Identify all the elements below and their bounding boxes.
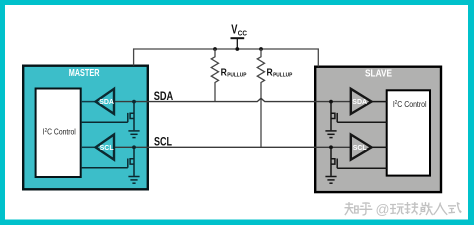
wire slave SCL buffer to control [371, 146, 387, 148]
svg-text:CC: CC [238, 28, 248, 37]
wire SCL bus [114, 146, 351, 148]
wire SDA bus [114, 98, 351, 101]
svg-text:V: V [231, 22, 237, 37]
svg-text:SDA: SDA [99, 99, 114, 106]
transistor slave SDA pulldown Q3 [331, 102, 387, 131]
svg-text:SCL: SCL [154, 135, 172, 149]
svg-text:SDA: SDA [154, 89, 174, 103]
power Vcc symbol [231, 38, 245, 49]
svg-text:SCL: SCL [100, 145, 115, 152]
resistor RPULLUP1 [211, 49, 218, 102]
IC MASTER box [23, 66, 148, 190]
svg-text:R: R [267, 67, 273, 78]
block slave I2C Control U2 [387, 90, 430, 175]
buffer slave SCL output [351, 135, 372, 160]
junction slave SDA node [329, 100, 333, 104]
svg-text:SLAVE: SLAVE [365, 69, 392, 80]
junction rail to RPULLUP2 [259, 47, 263, 51]
svg-text:PULLUP: PULLUP [273, 73, 292, 79]
wire Vcc rail [134, 49, 319, 67]
wire master SDA buffer output to control [81, 101, 96, 103]
svg-text:I2C Control: I2C Control [393, 99, 427, 109]
ground slave SCL [325, 177, 336, 184]
svg-text:I2C Control: I2C Control [43, 127, 76, 137]
ground slave SDA [325, 131, 336, 138]
transistor master SDA pulldown Q1 [81, 102, 134, 131]
transistor master SCL pulldown Q2 [81, 147, 134, 176]
junction master SCL node [132, 145, 136, 149]
junction slave SCL node [329, 145, 333, 149]
ground master SCL [128, 177, 139, 184]
buffer master SDA input [96, 89, 114, 114]
ground master SDA [128, 131, 139, 138]
transistor slave SCL pulldown Q4 [331, 147, 387, 176]
svg-text:R: R [221, 67, 227, 78]
wire master SCL buffer output to control [81, 146, 96, 148]
buffer master SCL input [96, 135, 115, 160]
junction rail to RPULLUP1 [213, 47, 217, 51]
wire slave SDA buffer to control [371, 101, 387, 103]
svg-text:PULLUP: PULLUP [227, 73, 246, 79]
svg-text:SDA: SDA [352, 99, 367, 106]
resistor RPULLUP2 with hop over SDA [257, 49, 264, 147]
buffer slave SDA output [351, 89, 372, 114]
junction master SDA node [132, 100, 136, 104]
svg-text:SCL: SCL [353, 145, 368, 152]
junction Vcc stub to rail [235, 47, 239, 51]
IC SLAVE box [315, 67, 441, 192]
block master I2C Control U1 [36, 89, 81, 178]
svg-text:MASTER: MASTER [69, 68, 100, 79]
